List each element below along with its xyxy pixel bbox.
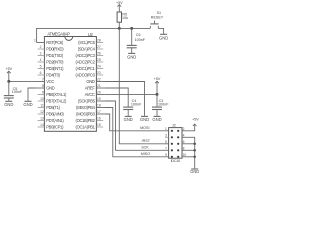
svg-text:1: 1 [34,39,36,43]
svg-text:(OC1A)PB1: (OC1A)PB1 [76,124,96,129]
pin 14 PB0(ICP1) [38,123,65,129]
svg-text:RST(PC6): RST(PC6) [46,40,64,45]
svg-text:PB6(XTAL1): PB6(XTAL1) [46,92,67,97]
wire pin8 GND to ground [28,88,37,101]
header pin 3 stub [165,133,169,137]
svg-text:PD2(INT0): PD2(INT0) [46,59,64,64]
pin 6 PD4(T0) [38,71,61,77]
wire AVCC to +5V [104,93,157,95]
wire SCK net [104,101,164,150]
svg-text:17: 17 [97,110,101,114]
header pin 10 stub [182,153,186,157]
power +5V (reset pull-up) [116,1,123,12]
ground pin8 [23,101,32,107]
pin 18 (MISO)PB4 [76,104,104,110]
pin 12 PD6(AIN0) [38,110,65,116]
svg-text:23: 23 [97,71,101,75]
node AVCC junction [156,93,159,96]
pin 28 (SCL)PC5 [78,39,103,45]
svg-text:GND: GND [46,85,55,90]
capacitor C5 100nF (VCC decoupling) [4,81,23,100]
svg-text:100nF: 100nF [12,90,23,94]
svg-text:(ADC1)PC1: (ADC1)PC1 [76,66,96,71]
svg-text:GND: GND [124,117,133,122]
svg-text:26: 26 [97,52,101,56]
svg-text:4: 4 [40,58,42,62]
pin 13 PD7(AIN1) [38,117,65,123]
switch S1 RESET [150,11,164,34]
ground below C4 [124,116,133,121]
svg-text:21: 21 [97,84,101,88]
pin 22 GND [86,78,104,84]
svg-text:VCC: VCC [46,79,54,84]
svg-text:100nF: 100nF [158,102,169,106]
svg-text:28: 28 [97,39,101,43]
header pin 1 stub [164,127,168,131]
wire header GND bus [186,137,194,168]
svg-text:20: 20 [97,91,101,95]
svg-text:(MOSI)PB3: (MOSI)PB3 [76,111,95,116]
svg-text:GND: GND [140,117,149,122]
pin 27 (SDA)PC4 [78,45,103,51]
svg-text:7: 7 [165,146,167,150]
pin 3 PD1(TXD) [38,52,64,58]
svg-text:13: 13 [40,117,44,121]
pin 5 PD3(INT1) [38,65,65,71]
svg-text:GND: GND [4,102,13,107]
power +5V (AVCC) [154,77,161,94]
svg-text:PD4(T0): PD4(T0) [46,72,60,77]
ground below C6 [127,53,136,59]
header pin 5 stub [164,140,168,144]
pin 21 AREF [85,84,104,90]
node GND bus junctions [193,143,196,159]
svg-text:PB0(ICP1): PB0(ICP1) [46,124,64,129]
svg-text:24: 24 [97,65,101,69]
pin 25 (ADC2)PC2 [76,58,104,64]
pin 4 PD2(INT0) [38,58,65,64]
svg-text:8: 8 [42,84,44,88]
pin 23 (ADC0)PC0 [76,71,104,77]
svg-text:(SCL)PC5: (SCL)PC5 [78,40,95,45]
header pin 7 stub [164,146,168,150]
svg-text:(SDA)PC4: (SDA)PC4 [78,46,96,51]
header pin 2 stub [182,127,186,131]
svg-text:12: 12 [40,110,44,114]
resistor R5 10k [117,12,128,28]
svg-text:10k: 10k [122,16,128,20]
svg-text:11: 11 [40,104,44,108]
svg-text:PD3(INT1): PD3(INT1) [46,66,64,71]
pin 7 VCC [37,78,55,84]
svg-text:2: 2 [40,45,42,49]
pin 10 PB7(XTAL2) [38,97,67,103]
svg-text:(ADC2)PC2: (ADC2)PC2 [76,59,96,64]
svg-text:10: 10 [183,153,187,157]
capacitor C4 100nF (AREF) [123,99,142,116]
svg-text:5: 5 [165,140,167,144]
svg-text:18: 18 [97,104,101,108]
connector J2 IDC10 (ISP header) [169,124,182,163]
svg-text:27: 27 [97,45,101,49]
svg-text:1: 1 [165,127,167,131]
ground pin22 [140,116,149,121]
wire MISO net [104,108,164,157]
ground below C3 [152,116,161,121]
svg-text:MOSI: MOSI [140,126,149,130]
svg-text:AREF: AREF [85,85,96,90]
svg-text:IDC10: IDC10 [171,159,181,163]
svg-text:S1: S1 [157,11,162,15]
svg-text:SCK: SCK [141,146,149,150]
svg-text:PD7(AIN1): PD7(AIN1) [46,118,64,123]
svg-text:9: 9 [165,153,167,157]
pin 8 GND [37,84,55,90]
svg-text:+5V: +5V [5,67,12,71]
svg-text:GND: GND [190,169,199,174]
power +5V (VCC left) [5,67,12,81]
svg-text:AVCC: AVCC [85,92,95,97]
pin 2 PD0(RXD) [38,45,65,51]
pin 20 AVCC [85,91,105,97]
header contact dots [171,130,180,158]
svg-text:2: 2 [183,127,185,131]
svg-text:GND: GND [86,79,95,84]
pin 19 (SCK)PB5 [78,97,104,103]
svg-text:PD1(TXD): PD1(TXD) [46,53,64,58]
pin 17 (MOSI)PB3 [76,110,104,116]
svg-text:19: 19 [97,97,101,101]
header pin 8 stub [182,146,186,150]
svg-text:25: 25 [97,58,101,62]
svg-text:PD0(RXD): PD0(RXD) [46,46,64,51]
svg-text:GND: GND [152,117,161,122]
svg-text:9: 9 [42,91,44,95]
svg-text:6: 6 [40,71,42,75]
pin 15 (OC1A)PB1 [76,123,104,129]
wire pin22 GND to ground [104,82,144,116]
svg-text:(ADC3)PC3: (ADC3)PC3 [76,53,96,58]
svg-text:(MISO)PB4: (MISO)PB4 [76,105,95,110]
svg-text:PD6(AIN0): PD6(AIN0) [46,111,64,116]
svg-text:+5V: +5V [154,77,161,81]
svg-text:+5V: +5V [192,118,199,122]
capacitor C6 100nF (reset) [127,28,146,53]
node junction C6 tap [130,27,133,30]
node VCC junction [7,80,10,83]
pin 16 (OC1B)PB2 [76,117,104,123]
svg-text:ATMEGA8AP: ATMEGA8AP [47,32,70,37]
wire AREF to C4 [104,88,128,107]
svg-text:100nF: 100nF [131,102,142,106]
svg-text:J2: J2 [172,124,176,128]
svg-text:3: 3 [40,52,42,56]
svg-text:6: 6 [183,140,185,144]
node RST junction at resistor [118,27,121,30]
capacitor C3 100nF (AVCC decoupling) [152,94,169,116]
pin 11 PD5(T1) [38,104,61,110]
header pin 4 stub [182,133,186,137]
svg-text:15: 15 [97,123,101,127]
wire RST net: pin1 up and across top [37,28,151,42]
svg-text:RESET: RESET [151,16,164,20]
ground below C5 [4,101,13,107]
pin 26 (ADC3)PC3 [76,52,104,58]
pin 24 (ADC1)PC1 [76,65,104,71]
svg-text:100nF: 100nF [135,38,146,42]
header pin 6 stub [182,140,186,144]
svg-text:C6: C6 [136,33,141,37]
svg-text:/RST: /RST [142,139,151,143]
wire MOSI net [104,114,164,131]
header pin 9 stub [164,153,168,157]
ground below switch [159,34,168,40]
svg-text:16: 16 [97,117,101,121]
svg-text:GND: GND [159,36,168,41]
svg-text:MISO: MISO [141,152,151,156]
svg-text:GND: GND [127,54,136,59]
svg-text:14: 14 [40,123,44,127]
svg-text:(ADC0)PC0: (ADC0)PC0 [76,72,96,77]
svg-text:3: 3 [165,133,167,137]
svg-text:7: 7 [42,78,44,82]
svg-text:10: 10 [40,97,44,101]
svg-text:GND: GND [23,102,32,107]
svg-text:(OC1B)PB2: (OC1B)PB2 [76,118,96,123]
svg-text:4: 4 [183,133,185,137]
svg-text:PB7(XTAL2): PB7(XTAL2) [46,98,67,103]
svg-text:(SCK)PB5: (SCK)PB5 [78,98,96,103]
ground header [190,169,199,174]
svg-text:22: 22 [97,78,101,82]
power +5V (header) [186,118,199,131]
svg-text:PD5(T1): PD5(T1) [46,105,60,110]
wire RST vertical to ISP [119,28,164,143]
pin 9 PB6(XTAL1) [38,91,67,97]
op-amp U2 (ATMEGA8-P IC body) [44,32,96,132]
svg-text:8: 8 [183,146,185,150]
pin 1 RST(PC6) [34,39,64,45]
wire VCC to pin7 [9,80,37,82]
svg-text:5: 5 [40,65,42,69]
